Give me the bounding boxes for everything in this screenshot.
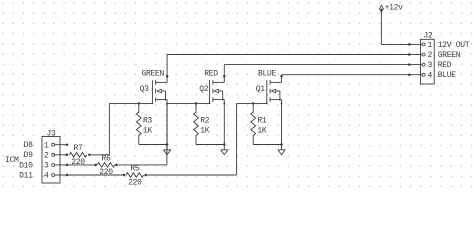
wire gate drop vertical BLUE [236, 103, 238, 175]
wire Q2 drain vertical [223, 65, 225, 83]
svg-text:220: 220 [128, 178, 142, 187]
connector J2 pin 2 circle [422, 53, 425, 56]
net label D10 [19, 161, 33, 170]
transistor Q3 gate pin dot [152, 103, 154, 105]
svg-text:D11: D11 [19, 171, 33, 180]
power +12V pin dot [380, 9, 383, 12]
resistor R5 label [130, 164, 140, 173]
connector J2 pin 4 stub wire [409, 74, 422, 76]
svg-text:BLUE: BLUE [438, 71, 457, 80]
connector J3 refdes label [46, 129, 56, 138]
transistor Q2 gate bar [209, 80, 211, 103]
svg-text:+12v: +12v [385, 4, 404, 13]
transistor Q1 label [256, 85, 266, 94]
resistor R7 label [74, 144, 84, 153]
svg-text:R5: R5 [130, 164, 140, 173]
wire R6 to gate drop [116, 164, 166, 166]
transistor Q2 drain pin dot [223, 75, 226, 78]
net label D11 [19, 171, 33, 180]
svg-text:3: 3 [428, 61, 433, 70]
transistor Q1 drain pin dot [280, 75, 283, 78]
svg-text:R2: R2 [200, 117, 210, 126]
wire R5 to gate drop [146, 174, 237, 176]
resistor R3 label [143, 117, 153, 126]
svg-text:4: 4 [428, 71, 433, 80]
connector J3 pin 1 stub wire [55, 144, 67, 146]
resistor R2 zigzag [194, 112, 199, 136]
svg-text:R7: R7 [74, 144, 84, 153]
transistor Q1 source pin dot [281, 103, 283, 105]
resistor R1 top lead [252, 103, 254, 112]
connector J3 pin 3 circle [52, 163, 55, 166]
connector J3 pin 3 end dot [66, 164, 69, 167]
connector J3 pin 4 number [44, 172, 49, 181]
connector J3 pin 2 end dot [66, 154, 69, 157]
connector J3 pin 4 circle [52, 174, 55, 177]
transistor Q2 gate pin dot [209, 103, 211, 105]
transistor Q1 gate bar [266, 80, 268, 103]
svg-text:1K: 1K [200, 126, 210, 135]
resistor R6 zigzag [97, 163, 115, 168]
transistor Q3 source pin dot [166, 103, 168, 105]
ground stem Q3 [166, 145, 168, 150]
net label GREEN [142, 70, 165, 79]
svg-text:RED: RED [438, 61, 452, 70]
svg-text:J2: J2 [423, 31, 433, 40]
resistor R3 top lead [138, 103, 140, 112]
resistor R7 zigzag [69, 153, 87, 158]
transistor Q3 body lead [161, 91, 165, 100]
connector J2 pin 4 number [428, 71, 433, 80]
connector J3 pin 3 stub wire [55, 164, 67, 166]
svg-text:12V OUT: 12V OUT [438, 41, 470, 50]
power +12V symbol triangle [379, 5, 383, 9]
transistor Q1 gate pin dot [266, 103, 268, 105]
connector J3 pin 1 number [44, 141, 49, 150]
connector J2 pin 2 number [428, 51, 433, 60]
wire BLUE net to J2 [282, 74, 410, 76]
connector J3 pin 1 circle [52, 143, 55, 146]
transistor Q1 source lead [270, 99, 281, 101]
resistor R5 right dot [144, 174, 147, 177]
wire R7 to gate drop [89, 154, 109, 156]
svg-text:R6: R6 [102, 154, 112, 163]
wire gate rail Q2 [167, 102, 210, 104]
wire RED net to J2 [224, 64, 409, 66]
transistor Q3 drain lead [156, 81, 167, 83]
connector J2 pin 4 circle [422, 73, 425, 76]
connector J2 pin 1 end dot [408, 43, 411, 46]
connector J2 pin 1 circle [422, 43, 425, 46]
svg-text:Q2: Q2 [199, 85, 209, 94]
transistor Q3 label [140, 85, 150, 94]
transistor Q2 source pin dot [223, 103, 225, 105]
svg-text:R3: R3 [143, 117, 153, 126]
svg-text:1K: 1K [143, 126, 153, 135]
junction dot R3 top [138, 102, 141, 105]
wire bottom rail Q3 [139, 144, 167, 146]
connector J2 pin 1 stub wire [409, 43, 422, 45]
svg-text:Q3: Q3 [140, 85, 150, 94]
resistor R5 left dot [123, 174, 126, 177]
svg-text:2: 2 [44, 151, 49, 160]
transistor Q1 channel ticks [269, 80, 271, 102]
ground symbol Q3 [164, 150, 171, 155]
svg-text:1: 1 [44, 141, 49, 150]
connector J2 pin 3 circle [422, 63, 425, 66]
connector J3 pin 2 number [44, 151, 49, 160]
resistor R3 zigzag [136, 112, 141, 136]
resistor R6 right dot [115, 164, 118, 167]
connector J3 pin 3 number [44, 162, 49, 171]
svg-text:Q1: Q1 [256, 85, 266, 94]
wire Q1 drain vertical [281, 75, 283, 83]
connector J3 pin 1 end dot [66, 143, 69, 146]
junction dot R1 top [252, 102, 255, 105]
junction dot source-gnd Q2 [223, 143, 226, 146]
resistor R1 value 1K [257, 126, 267, 135]
connector J3 pin 2 circle [52, 153, 55, 156]
transistor Q3 drain pin dot [166, 75, 169, 78]
svg-text:1: 1 [428, 41, 433, 50]
connector J2 pin 3 stub wire [409, 64, 422, 66]
connector J2 pin 4 end dot [408, 73, 411, 76]
resistor R7 value 220 [71, 158, 85, 167]
connector J2 pin 2 end dot [408, 53, 411, 56]
ground symbol Q1 [278, 150, 285, 155]
connector J3 body [42, 137, 60, 184]
svg-text:1K: 1K [257, 126, 267, 135]
wire Q3 source vertical [166, 100, 168, 145]
transistor Q3 body-source dot [165, 99, 167, 101]
transistor Q1 body-source dot [279, 99, 281, 101]
ground stem Q1 [281, 145, 283, 150]
connector J3 pin 4 stub wire [55, 174, 67, 176]
transistor Q1 drain lead [270, 81, 281, 83]
resistor R6 value 220 [99, 168, 113, 177]
svg-text:2: 2 [428, 51, 433, 60]
transistor Q2 source lead [213, 99, 224, 101]
wire J3 to R5 [67, 174, 124, 176]
transistor Q3 body arrow [157, 89, 161, 93]
resistor R1 zigzag [251, 112, 256, 136]
svg-text:D8: D8 [24, 141, 34, 150]
transistor Q3 channel ticks [155, 80, 157, 102]
transistor Q3 source lead [156, 99, 167, 101]
wire Q1 source vertical [281, 100, 283, 145]
resistor R6 left dot [94, 164, 97, 167]
resistor R5 zigzag [126, 173, 144, 178]
wire bottom rail Q1 [253, 144, 281, 146]
wire gate drop vertical GREEN [108, 103, 110, 154]
resistor R2 value 1K [200, 126, 210, 135]
connector J3 pin 2 stub wire [55, 154, 67, 156]
net label 12V OUT at J2 [438, 41, 470, 50]
junction dot source-gnd Q1 [280, 143, 283, 146]
svg-text:220: 220 [71, 158, 85, 167]
svg-text:R1: R1 [257, 117, 267, 126]
net label D9 [24, 151, 34, 160]
ground symbol Q2 [221, 150, 228, 155]
net label BLUE [258, 70, 277, 79]
wire J3 to R7 [66, 154, 68, 156]
wire +12V vertical [380, 11, 382, 45]
svg-text:ICM: ICM [5, 156, 19, 165]
wire bottom rail Q2 [196, 144, 224, 146]
wire +12V to J2 [381, 43, 409, 45]
svg-text:GREEN: GREEN [438, 51, 461, 60]
net label D8 [24, 141, 34, 150]
svg-text:3: 3 [44, 162, 49, 171]
transistor Q2 label [199, 85, 209, 94]
wire GREEN net to J2 [167, 54, 409, 56]
wire gate drop vertical RED [166, 103, 168, 164]
ground stem Q2 [223, 145, 225, 150]
connector J2 pin 3 end dot [408, 63, 411, 66]
net label GREEN at J2 [438, 51, 461, 60]
module label ICM [5, 156, 19, 165]
net label RED at J2 [438, 61, 452, 70]
wire Q3 drain vertical [166, 55, 168, 83]
connector J2 body [420, 39, 434, 84]
svg-text:D10: D10 [19, 161, 33, 170]
connector J2 refdes label [423, 31, 433, 40]
net label RED [204, 70, 218, 79]
resistor R1 label [257, 117, 267, 126]
resistor R7 left dot [65, 154, 68, 157]
wire gate rail Q3 [109, 102, 152, 104]
resistor R2 bottom lead [195, 135, 197, 145]
transistor Q2 drain lead [213, 81, 224, 83]
wire Q2 source vertical [223, 100, 225, 145]
wire J3 to R6 [67, 164, 96, 166]
transistor Q2 body-source dot [222, 99, 224, 101]
resistor R2 label [200, 117, 210, 126]
wire gate rail Q1 [237, 102, 267, 104]
resistor R5 value 220 [128, 178, 142, 187]
resistor R7 right dot [88, 154, 91, 157]
resistor R1 bottom lead [252, 135, 254, 145]
connector J2 pin 3 number [428, 61, 433, 70]
net label BLUE at J2 [438, 71, 457, 80]
transistor Q2 body lead [219, 91, 223, 100]
junction dot R2 top [195, 102, 198, 105]
junction dot source-gnd Q3 [166, 143, 169, 146]
resistor R3 bottom lead [138, 135, 140, 145]
svg-text:J3: J3 [46, 129, 56, 138]
connector J3 pin 4 end dot [66, 174, 69, 177]
transistor Q2 body arrow [214, 89, 218, 93]
svg-text:4: 4 [44, 172, 49, 181]
transistor Q1 body lead [276, 91, 280, 100]
connector J2 pin 2 stub wire [409, 54, 422, 56]
svg-text:D9: D9 [24, 151, 34, 160]
transistor Q2 channel ticks [212, 80, 214, 102]
svg-text:RED: RED [204, 70, 218, 79]
svg-text:220: 220 [99, 168, 113, 177]
svg-text:GREEN: GREEN [142, 70, 165, 79]
resistor R3 value 1K [143, 126, 153, 135]
transistor Q1 body arrow [272, 89, 276, 93]
resistor R6 label [102, 154, 112, 163]
resistor R2 top lead [195, 103, 197, 112]
connector J2 pin 1 number [428, 41, 433, 50]
power +12V label [385, 4, 404, 13]
transistor Q3 gate bar [151, 80, 153, 103]
svg-text:BLUE: BLUE [258, 70, 277, 79]
